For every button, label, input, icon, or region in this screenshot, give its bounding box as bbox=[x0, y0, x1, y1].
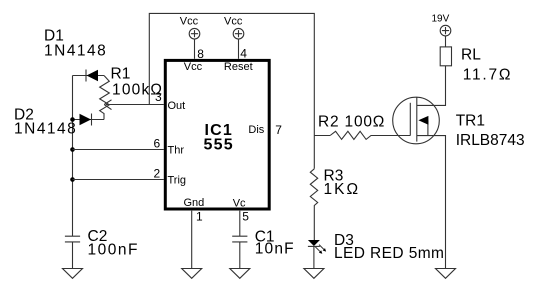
svg-text:2: 2 bbox=[154, 166, 161, 180]
svg-text:3: 3 bbox=[155, 90, 162, 104]
svg-text:Out: Out bbox=[168, 100, 186, 112]
svg-text:Trig: Trig bbox=[168, 174, 187, 186]
svg-text:R2 100Ω: R2 100Ω bbox=[318, 114, 385, 131]
svg-text:555: 555 bbox=[204, 137, 234, 154]
svg-text:Dis: Dis bbox=[248, 124, 264, 136]
svg-text:Vcc: Vcc bbox=[184, 61, 203, 73]
svg-text:Vcc: Vcc bbox=[180, 15, 199, 27]
svg-text:Vc: Vc bbox=[233, 198, 246, 210]
svg-text:5: 5 bbox=[242, 209, 249, 223]
svg-text:1N4148: 1N4148 bbox=[14, 121, 77, 138]
svg-text:IRLB8743: IRLB8743 bbox=[456, 132, 525, 149]
svg-text:Thr: Thr bbox=[168, 144, 185, 156]
svg-text:1KΩ: 1KΩ bbox=[324, 181, 361, 198]
svg-text:Vcc: Vcc bbox=[224, 15, 243, 27]
svg-text:1: 1 bbox=[196, 209, 203, 223]
svg-text:19V: 19V bbox=[432, 14, 450, 25]
svg-text:LED RED 5mm: LED RED 5mm bbox=[334, 245, 444, 262]
svg-text:RL: RL bbox=[461, 47, 481, 64]
svg-text:TR1: TR1 bbox=[456, 112, 485, 129]
svg-text:4: 4 bbox=[240, 47, 247, 61]
svg-text:10nF: 10nF bbox=[255, 241, 295, 258]
svg-text:1N4148: 1N4148 bbox=[44, 43, 107, 60]
svg-text:Gnd: Gnd bbox=[184, 197, 205, 209]
svg-text:R1: R1 bbox=[111, 66, 131, 83]
svg-text:7: 7 bbox=[275, 123, 282, 137]
svg-text:100nF: 100nF bbox=[88, 241, 139, 258]
svg-text:11.7Ω: 11.7Ω bbox=[463, 67, 513, 84]
svg-text:8: 8 bbox=[197, 47, 204, 61]
svg-text:6: 6 bbox=[154, 136, 161, 150]
svg-text:Reset: Reset bbox=[224, 61, 253, 73]
